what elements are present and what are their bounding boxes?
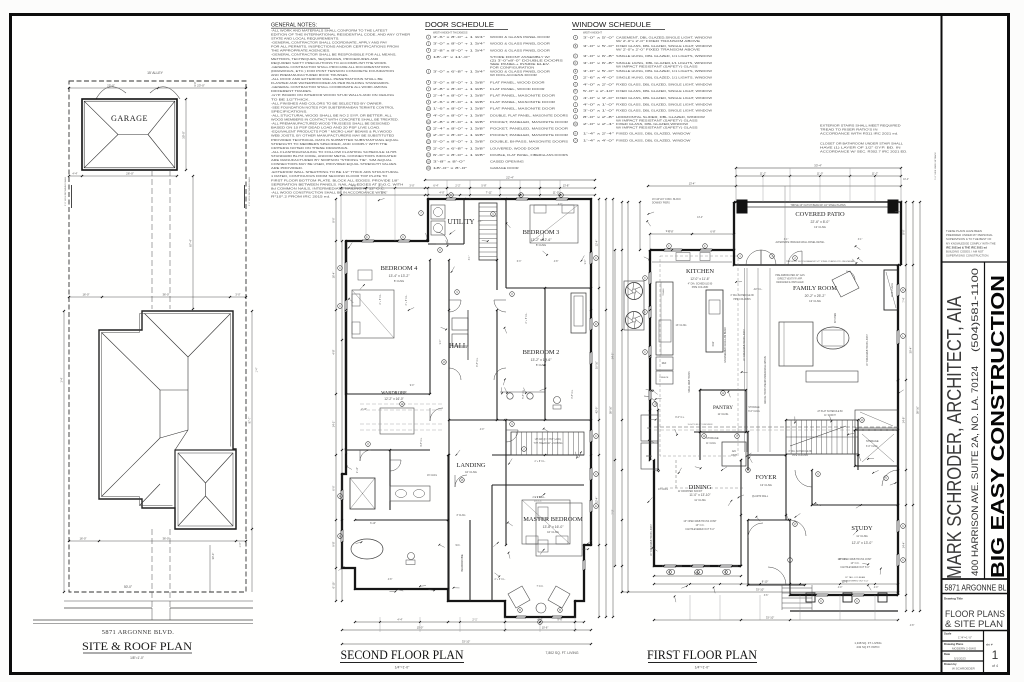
- svg-text:POCKET, PANELED, MASONITE DOOR: POCKET, PANELED, MASONITE DOOR: [490, 120, 568, 124]
- svg-text:D: D: [902, 289, 904, 292]
- kitchen soffit dashed: [660, 256, 738, 456]
- hall closets: [452, 318, 468, 330]
- svg-text:O: O: [575, 140, 577, 142]
- beds furniture bedroom3: [530, 205, 578, 243]
- svg-text:C: C: [644, 277, 646, 280]
- svg-text:WIDTH HEIGHT THICKNESS: WIDTH HEIGHT THICKNESS: [433, 31, 468, 35]
- svg-text:4" DIA. SCHEDULE 80: 4" DIA. SCHEDULE 80: [730, 294, 754, 297]
- ff top dim 33-4: [736, 167, 901, 169]
- leader arrows randomly near walls: [456, 450, 460, 455]
- svg-text:W/ IMPACT RESISTANT (SAFETY) G: W/ IMPACT RESISTANT (SAFETY) GLASS: [616, 125, 698, 129]
- utility room: [463, 199, 465, 244]
- svg-text:3'-0" x 6'-8": 3'-0" x 6'-8": [583, 61, 614, 65]
- tick clusters first floor: [649, 249, 651, 251]
- svg-text:13' CLNG: 13' CLNG: [809, 299, 821, 303]
- lower right roof: [175, 450, 236, 529]
- svg-text:3'-0" x 1'-0": 3'-0" x 1'-0": [583, 109, 614, 113]
- svg-text:SITE & ROOF PLAN: SITE & ROOF PLAN: [82, 639, 192, 653]
- svg-text:9'-0": 9'-0": [440, 340, 442, 345]
- svg-text:FIXED GLASS, DBL GLAZED, WINDO: FIXED GLASS, DBL GLAZED, WINDOW: [616, 131, 691, 135]
- svg-text:WARDROBE: WARDROBE: [381, 390, 407, 395]
- svg-text:WARDROBE: WARDROBE: [460, 554, 464, 572]
- svg-text:C: C: [902, 559, 904, 562]
- svg-text:WIDTH HEIGHT: WIDTH HEIGHT: [583, 31, 602, 35]
- bedroom2 bed: [522, 500, 570, 544]
- sidebar dividers: [942, 261, 1009, 263]
- landing & master top wall: [492, 454, 584, 456]
- ff interior dim ticks: [639, 202, 641, 250]
- svg-text:16"x16"x16" CONC. BLOCK: 16"x16"x16" CONC. BLOCK: [652, 199, 681, 201]
- dim extension lines 1st floor: [789, 168, 791, 202]
- upper stair: [479, 203, 497, 260]
- svg-text:A/C: A/C: [732, 449, 736, 453]
- dropped soffit dashed: [675, 460, 677, 490]
- svg-text:11'-0" x 13'-10": 11'-0" x 13'-10": [689, 493, 710, 497]
- site left dim 144: [63, 311, 65, 592]
- door schedule rows: [426, 35, 430, 39]
- svg-text:GARAGE: GARAGE: [111, 114, 148, 123]
- svg-text:COVERED PATIO: COVERED PATIO: [795, 211, 845, 218]
- svg-text:4'-0" x 1'-0": 4'-0" x 1'-0": [583, 103, 614, 107]
- svg-text:16'-0": 16'-0": [79, 537, 86, 541]
- roof inner offset: [145, 314, 231, 447]
- svg-text:CANTILEVERED OUT 6'-0": CANTILEVERED OUT 6'-0": [840, 566, 870, 569]
- svg-text:13' CLNG: 13' CLNG: [676, 324, 687, 327]
- svg-text:6'-8" C.L.: 6'-8" C.L.: [477, 357, 479, 367]
- svg-text:6'-4": 6'-4": [433, 184, 438, 188]
- svg-text:REF: REF: [662, 363, 667, 365]
- bath fixtures: tub: [571, 293, 586, 333]
- svg-text:13" O.C.: 13" O.C.: [695, 524, 704, 527]
- svg-text:6'-10": 6'-10": [332, 582, 336, 589]
- left dim strings 2nd floor: [335, 199, 337, 601]
- svg-text:7'-4": 7'-4": [902, 297, 906, 302]
- svg-text:33'-4": 33'-4": [814, 164, 822, 168]
- top dim segments: [425, 187, 595, 189]
- svg-text:6'-3": 6'-3": [517, 261, 522, 263]
- svg-text:2' + 8' C.L.: 2' + 8' C.L.: [380, 293, 382, 304]
- svg-text:5871 ARGONNE BLVD.: 5871 ARGONNE BLVD.: [102, 629, 174, 636]
- svg-text:8'-0" x 2'-8": 8'-0" x 2'-8": [583, 115, 614, 119]
- svg-text:13" O.C.: 13" O.C.: [838, 559, 847, 561]
- svg-text:ALT C.L.: ALT C.L.: [754, 288, 763, 291]
- svg-text:4'-0": 4'-0": [558, 204, 563, 206]
- svg-text:2'-0" HIGH RETAINING WALL: 2'-0" HIGH RETAINING WALL: [248, 176, 251, 206]
- svg-text:4" DIA. SCHEDULE 80: 4" DIA. SCHEDULE 80: [788, 450, 812, 453]
- wardrobe room: [355, 519, 448, 521]
- ice wine boxes: [641, 415, 658, 441]
- svg-text:C: C: [595, 473, 597, 476]
- svg-text:TRIPLE 16" FLITCH BEAM W/: TRIPLE 16" FLITCH BEAM W/ 1/2" STEEL PLA…: [786, 260, 855, 263]
- svg-text:Drawing Plans: Drawing Plans: [944, 642, 964, 646]
- svg-text:DOWNEY PIERS: DOWNEY PIERS: [652, 203, 670, 205]
- svg-text:TYP. TREAD 10" + NOSING: TYP. TREAD 10" + NOSING: [534, 442, 563, 445]
- svg-text:C: C: [644, 311, 646, 314]
- svg-text:4'-8" C.L.: 4'-8" C.L.: [421, 437, 423, 447]
- svg-text:5'-0" x 2'-10": 5'-0" x 2'-10": [583, 89, 614, 93]
- dim row above roof: [69, 296, 246, 298]
- svg-text:FOYER: FOYER: [756, 474, 778, 481]
- garage hip lines: [84, 101, 118, 134]
- svg-text:UP 21R @ 7 7/16" (+DR-): UP 21R @ 7 7/16" (+DR-): [535, 439, 562, 441]
- svg-text:11'-0": 11'-0": [553, 191, 559, 195]
- svg-text:1'-4": 1'-4": [256, 367, 259, 372]
- left wing top dims: [341, 187, 428, 189]
- kitchen island: [706, 290, 723, 352]
- kitchen top counter: [652, 261, 732, 263]
- dim extension lines 2nd floor: [446, 180, 448, 199]
- svg-text:FREEZE: FREEZE: [660, 377, 669, 379]
- media console: [806, 371, 858, 382]
- svg-text:14'-8": 14'-8": [902, 417, 906, 424]
- svg-text:UTILITY: UTILITY: [448, 219, 475, 226]
- svg-text:BEDROOM 2: BEDROOM 2: [523, 349, 560, 356]
- svg-text:13' CLNG: 13' CLNG: [658, 489, 668, 491]
- svg-text:1'-4": 1'-4": [239, 542, 242, 547]
- svg-text:11'-2": 11'-2": [760, 172, 766, 176]
- svg-text:2'-8" x 8'-0" + 1 3/8": 2'-8" x 8'-0" + 1 3/8": [433, 87, 485, 91]
- svg-text:6'-8": 6'-8": [710, 230, 715, 234]
- svg-text:9'-4": 9'-4": [666, 231, 671, 233]
- kitchen vent circles: [626, 283, 643, 300]
- svg-text:3'-1": 3'-1": [784, 239, 789, 241]
- svg-text:16'-4": 16'-4": [332, 272, 336, 279]
- svg-text:4'-8": 4'-8": [554, 261, 559, 263]
- dim 87-4 vertical: [192, 176, 194, 309]
- roof hips left body: [102, 333, 161, 391]
- svg-text:1: 1: [992, 648, 999, 662]
- svg-text:12'-4": 12'-4": [595, 497, 599, 504]
- svg-text:3'-6" x 8'-0" + 1 3/4": 3'-6" x 8'-0" + 1 3/4": [433, 35, 485, 39]
- svg-text:CASED OPENING: CASED OPENING: [490, 160, 525, 164]
- svg-text:3'-0" x 8'-0" + 1 3/4": 3'-0" x 8'-0" + 1 3/4": [433, 42, 485, 46]
- svg-text:8'-0": 8'-0": [902, 229, 906, 234]
- svg-text:MARK SCHRODER, ARCHITECT, AIA: MARK SCHRODER, ARCHITECT, AIA: [944, 295, 966, 579]
- closet wall right of bath: [469, 520, 471, 601]
- bottom dims 2nd floor: [355, 621, 584, 623]
- svg-text:FLAT PANEL, MASONITE DOOR: FLAT PANEL, MASONITE DOOR: [490, 107, 555, 111]
- svg-text:4'-0": 4'-0": [874, 587, 879, 589]
- porch under study: [790, 610, 898, 612]
- sinks mid bath: [507, 393, 513, 399]
- svg-text:FIXED GLASS, DBL GLAZED, WINDO: FIXED GLASS, DBL GLAZED, WINDOW: [616, 139, 691, 143]
- closet under stair: [855, 410, 898, 428]
- svg-text:W SCHROEDER: W SCHROEDER: [952, 667, 976, 671]
- svg-text:58'-10": 58'-10": [916, 406, 920, 414]
- svg-text:D: D: [595, 323, 597, 326]
- svg-text:KITCHEN: KITCHEN: [686, 268, 714, 275]
- svg-text:4'-0": 4'-0": [838, 587, 843, 589]
- svg-text:sht #: sht #: [986, 643, 993, 647]
- svg-text:3'-0" x 6'-8": 3'-0" x 6'-8": [583, 54, 614, 58]
- svg-text:2' + 8' C.L.: 2' + 8' C.L.: [535, 461, 546, 463]
- svg-text:5871 ARGONNE BL: 5871 ARGONNE BL: [945, 584, 1007, 593]
- covered patio slab: [734, 201, 901, 203]
- garage drive arcs: [96, 87, 126, 99]
- roof hips upper wing: [145, 314, 189, 358]
- svg-text:13'-4" x 13'-2": 13'-4" x 13'-2": [389, 274, 411, 278]
- bath sinks counter 2f: [390, 486, 430, 501]
- svg-text:C: C: [856, 600, 858, 603]
- ref freeze boxes: [656, 357, 673, 370]
- kitchen counters left: [656, 282, 673, 355]
- svg-text:5/1/2023: 5/1/2023: [954, 657, 966, 661]
- svg-text:2'-1": 2'-1": [472, 618, 477, 622]
- bedroom3 walls: [506, 240, 591, 242]
- garage roof outline: [82, 99, 177, 170]
- svg-text:22'-4": 22'-4": [506, 176, 514, 180]
- svg-text:DOUBLE, FLAT PANEL, FIBERGLASS: DOUBLE, FLAT PANEL, FIBERGLASS DOORS: [490, 153, 568, 157]
- svg-text:W/ 2'-0"x 2'-0" FIXED TRANSOM: W/ 2'-0"x 2'-0" FIXED TRANSOM ABOVE: [616, 47, 700, 51]
- svg-text:18'-4" x 11'-0": 18'-4" x 11'-0": [433, 55, 470, 59]
- svg-text:8' CLNG: 8' CLNG: [536, 243, 546, 247]
- svg-text:3'-6": 3'-6": [764, 595, 769, 597]
- svg-text:3'-0" x 5'-0": 3'-0" x 5'-0": [583, 69, 614, 73]
- foyer front walls: [741, 514, 790, 516]
- svg-text:58'-10": 58'-10": [609, 406, 613, 414]
- svg-text:FAMILY ROOM: FAMILY ROOM: [793, 285, 837, 292]
- svg-text:PIPE COLUMNS: PIPE COLUMNS: [733, 299, 751, 301]
- svg-text:1'-4" x 2'-4": 1'-4" x 2'-4": [583, 131, 614, 135]
- toilet 2f bottom: [408, 553, 415, 560]
- svg-text:MASTER BEDROOM: MASTER BEDROOM: [523, 516, 583, 523]
- svg-text:C: C: [595, 257, 597, 260]
- svg-text:5'-2": 5'-2": [378, 184, 383, 188]
- svg-text:Drawn by: Drawn by: [944, 662, 957, 666]
- svg-text:3'-0": 3'-0": [193, 81, 197, 86]
- svg-text:SUPERVISING CONSTRUCTION.: SUPERVISING CONSTRUCTION.: [946, 254, 989, 258]
- svg-text:4'-4": 4'-4": [397, 618, 402, 622]
- door arcs second floor: [430, 408, 443, 421]
- right dim strings 2nd floor: [598, 199, 600, 617]
- bottom-left tub: [351, 539, 383, 559]
- svg-text:PANTRY: PANTRY: [713, 405, 733, 411]
- utility washer dryer: [431, 205, 445, 219]
- svg-text:11' CLNG: 11' CLNG: [856, 534, 868, 538]
- svg-text:2'-0" x 6'-8" + 1 3/8": 2'-0" x 6'-8" + 1 3/8": [433, 146, 485, 150]
- svg-text:12'-2" x 16'-0": 12'-2" x 16'-0": [384, 397, 404, 401]
- svg-text:2'-8" x 8'-0" + 1 3/4": 2'-8" x 8'-0" + 1 3/4": [433, 48, 485, 52]
- svg-text:2'-6" x 8'-0" + 1 3/8": 2'-6" x 8'-0" + 1 3/8": [433, 100, 485, 104]
- svg-text:3'x5/C'6 ELEC UNCHWN: 3'x5/C'6 ELEC UNCHWN: [688, 424, 713, 426]
- street lines: [33, 619, 253, 621]
- svg-text:8' CLNG: 8' CLNG: [457, 515, 466, 517]
- svg-text:4'-8": 4'-8": [910, 625, 915, 627]
- svg-text:POCKET, PANELED, MASONITE DOOR: POCKET, PANELED, MASONITE DOOR: [490, 127, 568, 131]
- svg-text:C: C: [820, 600, 822, 603]
- svg-text:33'-10": 33'-10": [756, 588, 764, 592]
- svg-text:C: C: [339, 267, 341, 270]
- svg-text:12'-0" x 11'-6": 12'-0" x 11'-6": [690, 277, 709, 281]
- svg-text:FLAT PANEL, MASONITE DOOR: FLAT PANEL, MASONITE DOOR: [490, 100, 555, 104]
- svg-text:of 4: of 4: [992, 664, 998, 668]
- svg-text:TRASH: TRASH: [662, 288, 665, 296]
- svg-text:2'-4" x 8'-0" + 1 3/8": 2'-4" x 8'-0" + 1 3/8": [433, 127, 485, 131]
- svg-text:5'-8": 5'-8": [481, 184, 486, 188]
- svg-text:87'-7": 87'-7": [248, 417, 252, 424]
- svg-text:1'-4" x 4'-0": 1'-4" x 4'-0": [583, 139, 614, 143]
- svg-text:13'-2" x 12'-6": 13'-2" x 12'-6": [531, 238, 553, 242]
- bedroom4 left wing walls: [345, 241, 347, 394]
- svg-text:13' CLNG: 13' CLNG: [760, 483, 772, 487]
- svg-text:16'-0": 16'-0": [82, 293, 89, 297]
- svg-text:SPELL WEB TRUSS: SPELL WEB TRUSS: [689, 371, 691, 393]
- svg-text:C: C: [339, 305, 341, 308]
- svg-text:STUDY: STUDY: [851, 525, 873, 532]
- svg-text:DIRECT VENT F.P. APP.: DIRECT VENT F.P. APP.: [778, 278, 803, 281]
- svg-text:13' CLNG: 13' CLNG: [814, 225, 826, 229]
- svg-text:C: C: [402, 236, 404, 239]
- dim row below roof: [69, 540, 246, 542]
- title block divider: [941, 15, 943, 674]
- svg-text:SECOND FLOOR PLAN: SECOND FLOOR PLAN: [341, 648, 464, 662]
- svg-text:ALTERNATE: BRACED WALL PANE: ALTERNATE: BRACED WALL PANEL DETAIL: [775, 241, 825, 244]
- svg-text:4'-8": 4'-8": [388, 579, 393, 581]
- svg-text:SINGLE HUNG, DBL GLAZED, 1/1 L: SINGLE HUNG, DBL GLAZED, 1/1 LIGHTS, WIN…: [616, 54, 712, 58]
- svg-text:18" TALL LVD BEAM: 18" TALL LVD BEAM: [845, 576, 865, 579]
- svg-text:WOOD & GLASS PANEL DOOR: WOOD & GLASS PANEL DOOR: [490, 48, 550, 52]
- svg-text:GRACE-TRUSS BEAM UNDER/WALL/AB: GRACE-TRUSS BEAM UNDER/WALL/ABOVE: [764, 356, 767, 404]
- armchair: [832, 271, 859, 297]
- family room truss lines: [744, 268, 746, 452]
- kitchen exterior walls: [650, 250, 748, 573]
- svg-text:FLAT PANEL, WOOD DOOR: FLAT PANEL, WOOD DOOR: [490, 87, 545, 91]
- svg-text:3'-0" x 5'-0": 3'-0" x 5'-0": [583, 36, 614, 40]
- svg-text:FIXED GLASS, DBL GLAZED, SINGL: FIXED GLASS, DBL GLAZED, SINGLE LIGHT, W…: [616, 82, 712, 86]
- svg-text:FIXED GLASS, DBL GLAZED, SINGL: FIXED GLASS, DBL GLAZED, SINGLE LIGHT, W…: [616, 89, 712, 93]
- svg-text:PRE-FABRICATED 42" GAS: PRE-FABRICATED 42" GAS: [775, 274, 805, 277]
- svg-text:2'-8" x 8'-0" + 1 3/8": 2'-8" x 8'-0" + 1 3/8": [433, 120, 485, 124]
- study door arcs: [790, 520, 806, 536]
- svg-text:4'-0" x 3'-0": 4'-0" x 3'-0": [583, 96, 614, 100]
- ff bottom dims: [654, 575, 741, 577]
- svg-text:7,802 SQ. FT. LIVING: 7,802 SQ. FT. LIVING: [546, 651, 579, 655]
- svg-text:11' CLNG: 11' CLNG: [694, 498, 706, 502]
- svg-text:33'-10": 33'-10": [766, 616, 774, 620]
- svg-text:7'-11": 7'-11": [486, 191, 492, 195]
- svg-text:2'-4" x 8'-0" + 1 3/8": 2'-4" x 8'-0" + 1 3/8": [433, 94, 485, 98]
- svg-text:9'-8": 9'-8": [332, 541, 336, 546]
- svg-text:2'-0" x 2'-4": 2'-0" x 2'-4": [583, 122, 614, 126]
- svg-text:10' CLNG: 10' CLNG: [547, 530, 559, 534]
- retaining wall right: [244, 185, 246, 208]
- svg-text:3'-8" C.L.: 3'-8" C.L.: [572, 389, 574, 399]
- svg-text:AT PLAT SCHEDULE 80: AT PLAT SCHEDULE 80: [817, 410, 843, 413]
- svg-text:W/ DOG ACCESS DOOR: W/ DOG ACCESS DOOR: [490, 73, 537, 77]
- svg-text:QUARTZ WALL: QUARTZ WALL: [752, 495, 769, 498]
- storage + ac: [694, 431, 748, 433]
- fireplace: [884, 270, 898, 310]
- svg-text:33'-10": 33'-10": [462, 640, 470, 644]
- svg-text:8'-10": 8'-10": [762, 580, 769, 584]
- svg-text:4'-0" x 8'-0" + 1 3/8": 4'-0" x 8'-0" + 1 3/8": [433, 113, 485, 117]
- svg-text:30'-0": 30'-0": [211, 553, 215, 560]
- svg-text:2'-6" x 4'-0": 2'-6" x 4'-0": [583, 76, 614, 80]
- svg-text:11'-2": 11'-2": [872, 172, 878, 176]
- dining walls: [653, 460, 655, 566]
- svg-text:5'-0" SIDE YARD SETBACK: 5'-0" SIDE YARD SETBACK: [934, 152, 937, 180]
- svg-text:FIXED GLASS, DBL GLAZED, SINGL: FIXED GLASS, DBL GLAZED, SINGLE LIGHT, W…: [616, 109, 712, 113]
- svg-text:2'-2": 2'-2": [455, 184, 460, 188]
- svg-text:3'-8" x 8'-0": 3'-8" x 8'-0": [433, 160, 465, 164]
- round table: [817, 327, 849, 349]
- svg-text:3'-1": 3'-1": [858, 239, 863, 241]
- svg-text:3'-0" x 5'-0": 3'-0" x 5'-0": [583, 44, 614, 48]
- svg-text:1/4"=1'-0": 1/4"=1'-0": [395, 666, 410, 670]
- svg-text:1"/4"=1'-0": 1"/4"=1'-0": [958, 636, 972, 640]
- svg-text:4'-0": 4'-0": [439, 191, 444, 195]
- foyer door arc: [768, 567, 786, 585]
- svg-text:11'-0": 11'-0": [817, 172, 823, 176]
- top dim 22-4: [425, 179, 595, 181]
- svg-text:1/4"=1'-0": 1/4"=1'-0": [695, 666, 710, 670]
- svg-text:ACCORDANCE WITH R311 IRC 2021: ACCORDANCE WITH R311 IRC 2021 ed.: [820, 132, 898, 136]
- svg-text:10'-6": 10'-6": [542, 626, 549, 630]
- kitchen top dim row: [650, 233, 734, 235]
- bath mid walls: [449, 309, 591, 311]
- svg-text:14'-2": 14'-2": [611, 353, 615, 360]
- svg-text:3'-0": 3'-0": [235, 293, 240, 297]
- svg-text:& SITE PLAN: & SITE PLAN: [945, 618, 1003, 629]
- svg-text:30'-4": 30'-4": [909, 347, 913, 354]
- svg-text:(504)581-1100: (504)581-1100: [970, 268, 981, 352]
- svg-text:13'-2" x 12'-6": 13'-2" x 12'-6": [531, 358, 553, 362]
- pantry walls: [700, 459, 748, 461]
- svg-text:STORAGE: STORAGE: [866, 439, 879, 443]
- svg-text:8'-0": 8'-0": [332, 217, 336, 222]
- svg-text:3'-1": 3'-1": [469, 256, 471, 261]
- svg-text:12'-2": 12'-2": [381, 191, 388, 195]
- patio posts: [737, 200, 747, 213]
- svg-text:400 HARRISON AVE. SUITE 2A,: 400 HARRISON AVE. SUITE 2A, NO. LA. 7012…: [970, 366, 980, 576]
- svg-text:20'-2" x 25'-2": 20'-2" x 25'-2": [805, 294, 827, 298]
- svg-text:BIG EASY CONSTRUCTION: BIG EASY CONSTRUCTION: [987, 275, 1008, 578]
- driveway center dashed lines: [151, 170, 153, 309]
- bedroom4 bottom wall: [346, 393, 430, 395]
- upper flight stairs: [511, 432, 584, 455]
- retaining wall left: [71, 185, 73, 208]
- svg-text:STORAGE: STORAGE: [748, 406, 760, 409]
- svg-text:2' + 8' C.L.: 2' + 8' C.L.: [495, 579, 506, 581]
- svg-text:4'-4": 4'-4": [72, 172, 77, 176]
- svg-text:10'-4": 10'-4": [903, 179, 909, 181]
- svg-text:FIRE PLACE: FIRE PLACE: [891, 283, 894, 297]
- svg-text:16' CLNG: 16' CLNG: [427, 475, 437, 477]
- svg-text:13" O.C.: 13" O.C.: [850, 562, 859, 565]
- first floor beam dashed line: [654, 426, 898, 428]
- svg-text:W.C.: W.C.: [456, 545, 461, 547]
- svg-text:FLAT PANEL, MASONITE DOOR: FLAT PANEL, MASONITE DOOR: [490, 94, 555, 98]
- svg-text:POCKET, PANELED, MASONITE DOOR: POCKET, PANELED, MASONITE DOOR: [490, 133, 568, 137]
- svg-text:J: J: [575, 105, 576, 107]
- svg-text:18'-0" x 8'-0": 18'-0" x 8'-0": [433, 166, 467, 170]
- svg-text:PIPE COLUMN: PIPE COLUMN: [792, 455, 808, 457]
- hall walls: [448, 260, 450, 455]
- svg-text:DOUBLE, BI-PASS, MASONITE DOOR: DOUBLE, BI-PASS, MASONITE DOORS: [490, 140, 568, 144]
- valley connect: [175, 430, 188, 450]
- site right dims: [251, 311, 253, 592]
- svg-text:FIXED GLASS, DBL GLAZED, SINGL: FIXED GLASS, DBL GLAZED, SINGLE LIGHT, W…: [616, 103, 712, 107]
- svg-text:11' CLNG: 11' CLNG: [718, 413, 729, 416]
- svg-text:4'-8": 4'-8": [332, 349, 336, 354]
- bedroom4 bed: [352, 290, 394, 338]
- svg-text:16" OPEN WEB TRUSS JOIST: 16" OPEN WEB TRUSS JOIST: [867, 333, 869, 366]
- svg-text:W/ 2'-0"x 2'-0" FIXED TRANSOM: W/ 2'-0"x 2'-0" FIXED TRANSOM ABOVE: [616, 39, 700, 43]
- svg-text:7'-2": 7'-2": [611, 509, 615, 514]
- master bed: [536, 503, 582, 556]
- svg-text:DINING: DINING: [689, 484, 712, 491]
- svg-text:1'-4": 1'-4": [60, 377, 64, 382]
